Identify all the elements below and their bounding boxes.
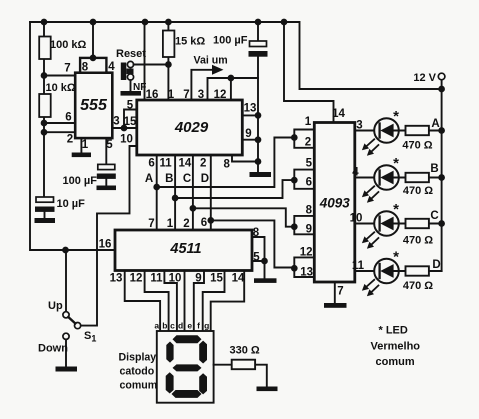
wire 4511 pin 14 to display g [211, 271, 245, 332]
wire 4511 pin 11 to display c [164, 271, 177, 332]
wire 4511 pins 8,5 to ground [252, 237, 265, 278]
svg-text:12 V: 12 V [413, 72, 436, 84]
wire 555 pin 3 to 4029 pin 15 [112, 127, 136, 129]
svg-text:470 Ω: 470 Ω [402, 140, 432, 152]
svg-text:comum: comum [120, 380, 158, 392]
svg-text:8: 8 [253, 227, 260, 239]
svg-text:100 µF: 100 µF [63, 175, 98, 187]
svg-text:d: d [178, 321, 183, 331]
svg-text:10 µF: 10 µF [57, 198, 86, 210]
capacitor 100 uF (pin5) [98, 164, 115, 169]
svg-text:100 kΩ: 100 kΩ [50, 39, 87, 51]
LED C with resistor 470 Ohm [355, 211, 442, 249]
wire 4093 gate4 pins 12,13 bracket [294, 257, 314, 277]
ground 4093 [324, 303, 347, 308]
svg-text:1: 1 [168, 89, 175, 101]
resistor 100 kOhm [43, 22, 45, 76]
4511 pin numbers [99, 217, 261, 285]
svg-text:A: A [145, 173, 153, 185]
LED D with resistor 470 Ohm [355, 259, 442, 297]
wire 555 pin 6 [44, 122, 75, 124]
junction 555 pin2 node [42, 130, 47, 135]
svg-text:16: 16 [146, 89, 159, 101]
svg-text:6: 6 [306, 177, 312, 189]
svg-text:470 Ω: 470 Ω [403, 280, 433, 292]
svg-text:*: * [393, 201, 399, 218]
op IC U1 555 [75, 73, 112, 138]
svg-text:6: 6 [148, 158, 154, 170]
svg-text:3: 3 [113, 116, 119, 128]
wire 4093 pin 14 supply [284, 22, 334, 123]
wire 555 pin 1 to ground [80, 138, 82, 152]
svg-text:14: 14 [332, 108, 345, 120]
ground 4511 [254, 278, 277, 283]
svg-text:4: 4 [108, 61, 115, 73]
svg-text:12: 12 [300, 247, 313, 259]
svg-text:*: * [393, 155, 399, 172]
svg-text:comum: comum [376, 356, 415, 368]
junction pin3/pin15/pin5 node [122, 126, 127, 131]
svg-text:g: g [204, 321, 209, 331]
wire 4511 pin 12 to display b [145, 271, 169, 332]
svg-text:12: 12 [130, 273, 143, 285]
svg-text:Down: Down [38, 343, 68, 355]
svg-text:470 Ω: 470 Ω [403, 185, 433, 197]
svg-text:2: 2 [67, 134, 73, 146]
svg-text:6: 6 [201, 217, 207, 229]
wire 4029 pin 5 bracket [124, 110, 137, 129]
resistor 10 kOhm [43, 76, 45, 124]
wire node C column [192, 155, 194, 230]
svg-text:a: a [154, 321, 159, 331]
junction 555 pin7 node [42, 73, 47, 78]
svg-text:11: 11 [150, 273, 163, 285]
wire 4511 pin 13 to display a [125, 271, 160, 332]
svg-text:9: 9 [245, 128, 251, 140]
svg-text:7: 7 [337, 286, 343, 298]
wire 4029 pin 10 to switch S1 [81, 146, 137, 326]
capacitor 100 uF (supply) [257, 22, 259, 172]
svg-text:10: 10 [120, 134, 133, 146]
junction 555 pin6 node [42, 121, 47, 126]
svg-text:5: 5 [127, 100, 134, 112]
svg-text:15: 15 [124, 116, 137, 128]
svg-text:c: c [170, 321, 175, 331]
svg-text:555: 555 [80, 97, 108, 114]
node labels A B C D at 4029 [145, 173, 209, 185]
7-segment digit 8 [166, 335, 207, 398]
ground reset [121, 91, 142, 96]
wire node B column [174, 155, 176, 230]
svg-text:5: 5 [106, 139, 113, 151]
IC U4 4093 [314, 123, 355, 283]
svg-text:C: C [430, 210, 438, 222]
svg-text:A: A [431, 118, 439, 130]
svg-text:2: 2 [305, 137, 311, 149]
svg-text:2: 2 [200, 158, 206, 170]
svg-text:7: 7 [148, 218, 154, 230]
display segment letters [154, 321, 209, 331]
svg-text:7: 7 [183, 89, 189, 101]
svg-text:470 Ω: 470 Ω [403, 235, 433, 247]
svg-text:Up: Up [48, 300, 63, 312]
svg-text:e: e [187, 321, 192, 331]
svg-text:10 kΩ: 10 kΩ [46, 82, 76, 94]
svg-text:3: 3 [356, 120, 362, 132]
svg-text:4: 4 [352, 167, 359, 179]
ground S1 down [56, 367, 78, 372]
4093 pin numbers [300, 108, 365, 298]
junction top rail at 100uF [256, 20, 261, 25]
svg-text:14: 14 [232, 273, 245, 285]
svg-text:8: 8 [306, 205, 313, 217]
wire node A column [156, 155, 158, 230]
wire 4029 pin 13 [242, 114, 258, 116]
svg-text:C: C [183, 173, 191, 185]
wire 4093 gate2 pins 5,6 bracket [294, 170, 314, 189]
svg-text:6: 6 [65, 112, 71, 124]
junction top rail at 555 [91, 20, 96, 25]
wire 4029 pin 9 [242, 139, 258, 141]
rail node labels A B C D [430, 118, 440, 271]
pushbutton Reset NF [121, 63, 127, 81]
resistor 15 kOhm [167, 22, 169, 100]
svg-text:100 µF: 100 µF [213, 35, 248, 47]
wire 4093 pin 7 to ground [334, 282, 336, 303]
wire 4029 pin 8 [232, 155, 258, 162]
ground 330 [257, 387, 278, 392]
svg-text:B: B [165, 173, 173, 185]
resistor 330 Ohm [214, 365, 267, 387]
svg-text:NF: NF [133, 82, 146, 93]
svg-text:B: B [430, 163, 438, 175]
capacitor 10 uF [36, 197, 54, 202]
wire 555 pin 5 [105, 138, 107, 164]
svg-text:10: 10 [169, 273, 182, 285]
svg-text:Display: Display [119, 352, 157, 364]
555 pin numbers [64, 61, 119, 151]
IC U2 4029 [137, 100, 243, 155]
ground 10uF [35, 218, 56, 223]
svg-text:14: 14 [179, 158, 192, 170]
svg-text:* LED: * LED [379, 325, 408, 337]
4029 pin numbers [120, 89, 256, 171]
svg-text:10: 10 [350, 213, 363, 225]
junction top rail at 4093 supply [282, 20, 287, 25]
svg-text:D: D [201, 173, 209, 185]
switch S1 [65, 250, 67, 312]
junction top rail at 4029 pin16 [143, 20, 148, 25]
svg-text:Vai um: Vai um [194, 55, 228, 67]
LED asterisks [393, 108, 399, 266]
IC U3 4511 [115, 230, 252, 271]
wire 4093 gate3 pins 8,9 bracket [294, 216, 314, 234]
svg-text:11: 11 [160, 158, 173, 170]
svg-text:16: 16 [99, 239, 112, 251]
wire 4093 gate1 pins 1,2 bracket [294, 130, 314, 148]
LED A with resistor 470 Ohm [355, 118, 442, 156]
wire node D column [210, 155, 212, 230]
wire left +12V rail to 4511 pin 16 [30, 22, 115, 250]
svg-text:13: 13 [244, 103, 257, 115]
svg-text:13: 13 [110, 273, 123, 285]
svg-text:1: 1 [82, 139, 89, 151]
svg-text:8: 8 [82, 62, 89, 74]
svg-text:11: 11 [352, 260, 365, 272]
svg-text:5: 5 [306, 158, 313, 170]
svg-text:2: 2 [183, 218, 189, 230]
wire 12V rail [429, 80, 442, 271]
wire 555 pin 2 [44, 123, 75, 197]
svg-text:b: b [162, 321, 167, 331]
svg-text:4511: 4511 [169, 241, 201, 257]
wire 4029 pin 3 / pin 12 loop to ground column [208, 78, 259, 100]
wire reset to 4029 pin1 [134, 64, 169, 66]
display 7-segment box [157, 331, 214, 403]
ground 555 pin1 [72, 153, 91, 158]
svg-text:f: f [197, 321, 200, 331]
ground 100uF pin5 [97, 186, 117, 191]
svg-text:9: 9 [306, 224, 312, 236]
svg-text:*: * [393, 108, 399, 125]
ground 4029 side [250, 172, 272, 177]
wire 555 pin 7 [44, 75, 75, 77]
svg-text:*: * [393, 249, 399, 266]
svg-text:1: 1 [305, 116, 312, 128]
555 top pins 8/4 box [80, 58, 106, 73]
svg-text:catodo: catodo [120, 366, 155, 378]
wire 4029 pin 7 carry out arrow (Vai um) [191, 70, 214, 100]
svg-text:15: 15 [210, 273, 223, 285]
svg-text:5: 5 [253, 252, 260, 264]
svg-text:8: 8 [223, 159, 230, 171]
svg-text:4093: 4093 [319, 196, 351, 211]
svg-text:Vermelho: Vermelho [371, 341, 421, 353]
svg-text:12: 12 [214, 89, 227, 101]
junction top rail at 15k [166, 20, 171, 25]
labels 470 Ohm [402, 140, 433, 293]
svg-text:7: 7 [64, 63, 70, 75]
wire +12V top rail [30, 22, 442, 89]
svg-text:3: 3 [198, 89, 204, 101]
svg-text:1: 1 [167, 218, 174, 230]
wire 4511 pin 10 to display d [184, 271, 186, 332]
svg-text:9: 9 [195, 273, 201, 285]
wire 4511 pin 9 to display e [194, 271, 204, 332]
svg-text:Reset: Reset [116, 48, 146, 60]
svg-text:D: D [432, 259, 440, 271]
wire 4029 pin 16 supply [144, 22, 146, 100]
wire 4511 pin 15 to display f [203, 271, 225, 332]
svg-text:330 Ω: 330 Ω [230, 345, 260, 357]
svg-text:4029: 4029 [174, 119, 209, 136]
svg-text:15 kΩ: 15 kΩ [175, 36, 205, 48]
junction top rail at 100k [42, 20, 47, 25]
svg-text:13: 13 [300, 267, 313, 279]
junction 4511 pin16 / S1 [63, 248, 68, 253]
LED B with resistor 470 Ohm [355, 165, 442, 203]
